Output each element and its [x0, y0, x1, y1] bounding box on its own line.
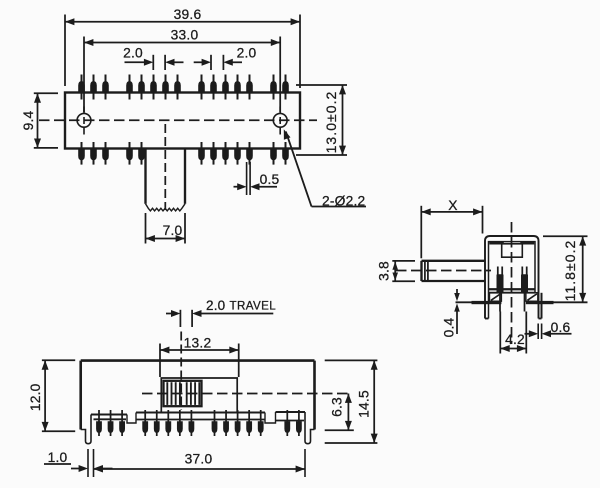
svg-text:37.0: 37.0 — [185, 452, 213, 467]
svg-text:13.2: 13.2 — [184, 335, 212, 350]
svg-text:0.5: 0.5 — [260, 172, 280, 187]
svg-text:0.4: 0.4 — [442, 317, 457, 337]
svg-text:1.0: 1.0 — [48, 450, 68, 465]
svg-text:11.8±0.2: 11.8±0.2 — [562, 240, 578, 302]
svg-text:X: X — [448, 198, 457, 213]
svg-text:TRAVEL: TRAVEL — [230, 300, 277, 313]
svg-text:4.2: 4.2 — [505, 332, 525, 347]
svg-text:2.0: 2.0 — [237, 46, 257, 61]
svg-text:33.0: 33.0 — [171, 28, 199, 43]
svg-text:2.0: 2.0 — [123, 46, 143, 61]
svg-text:9.4: 9.4 — [21, 110, 36, 130]
svg-text:14.5: 14.5 — [357, 390, 372, 418]
svg-text:13.0±0.2: 13.0±0.2 — [323, 91, 339, 154]
svg-text:39.6: 39.6 — [174, 7, 202, 22]
svg-text:0.6: 0.6 — [551, 320, 571, 335]
svg-text:2-Ø2.2: 2-Ø2.2 — [322, 194, 365, 209]
svg-text:7.0: 7.0 — [163, 223, 183, 238]
svg-text:2.0: 2.0 — [206, 298, 225, 313]
svg-text:12.0: 12.0 — [28, 383, 43, 411]
svg-text:3.8: 3.8 — [377, 261, 392, 281]
svg-text:6.3: 6.3 — [330, 397, 345, 417]
